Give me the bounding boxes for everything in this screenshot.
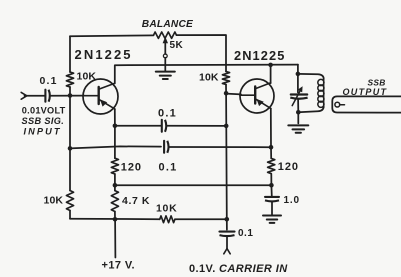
label 10K (upper left resistor) (77, 71, 97, 83)
svg-text:0.1: 0.1 (159, 161, 178, 173)
capacitor C 0.1 (lower coupling) (164, 141, 168, 153)
capacitor C 0.1 (carrier blocking) (220, 232, 235, 237)
wire blocking cap down to carrier source chevron (226, 236, 228, 249)
label 0.1V. CARRIER IN (189, 263, 288, 275)
svg-text:0.1V.: 0.1V. (189, 263, 216, 275)
resistor 10K (bottom rail series) (160, 216, 175, 223)
node junction: Q1 emitter / upper coupling line (113, 124, 118, 129)
svg-text:0.1: 0.1 (40, 75, 58, 87)
label 120 (right) (278, 161, 299, 173)
wire Q2 collector riser (270, 65, 272, 83)
capacitor C-in 0.1 (input coupling) (45, 90, 49, 102)
svg-text:OUTPUT: OUTPUT (343, 87, 388, 97)
svg-text:10K: 10K (156, 202, 177, 214)
svg-text:0.1: 0.1 (158, 108, 177, 120)
wire top rail left segment (node: top bias rail) (70, 34, 154, 37)
wire 4.7K to bottom rail junction (114, 212, 116, 220)
wire primary coil bottom to tank bottom node (298, 106, 323, 112)
wire 120 to mid junction (114, 174, 116, 185)
resistor 120 (Q2 emitter) (268, 158, 275, 173)
input chevron (SSB signal source terminal) (21, 92, 27, 99)
wire Q1 emitter junction down to 120 resistor (114, 126, 116, 158)
wire right mid junction to bypass cap (270, 185, 272, 196)
svg-text:120: 120 (121, 162, 142, 174)
svg-text:5K: 5K (170, 40, 184, 51)
svg-text:120: 120 (278, 161, 299, 173)
wire lower coupling line to Q2 emitter node (169, 146, 271, 148)
wire variable capacitor to tank bottom node (297, 99, 299, 112)
wire top rail right segment to corner above Q2 bias resistor (177, 35, 227, 72)
wire input to coupling capacitor (25, 95, 46, 97)
label 4.7K (left) (122, 195, 150, 207)
ground (balance wiper) (156, 72, 175, 79)
wire +17V feed drop (114, 219, 116, 257)
label INPUT (input) (24, 127, 62, 137)
wire tank top node down to variable capacitor (297, 74, 299, 93)
wire upper coupling line from Q1 emitter node (115, 125, 161, 127)
wire upper coupling line to carrier vertical (167, 125, 227, 127)
svg-text:BALANCE: BALANCE (142, 19, 194, 30)
label 2N1225 (right transistor) (234, 48, 285, 63)
wire right 120 to right mid junction (270, 174, 272, 186)
label 0.01VOLT (input level) (22, 105, 66, 115)
inductor L primary loops (318, 79, 324, 107)
label 0.1 (input coupling cap) (40, 75, 58, 87)
svg-text:SSB SIG.: SSB SIG. (22, 116, 65, 126)
wire bypass cap to ground (271, 201, 273, 215)
label 0.1 (upper coupling cap) (158, 108, 177, 120)
transistor Q2 2N1225 (right) (240, 79, 274, 113)
svg-text:INPUT: INPUT (24, 127, 62, 137)
resistor 10K (Q2 bias from top rail) (222, 72, 229, 85)
svg-text:SSB: SSB (368, 78, 386, 88)
node junction: right divider mid (269, 183, 274, 188)
node junction: carrier vertical / upper 0.1 line (224, 124, 229, 129)
wire Q2 emitter junction to right 120 (270, 147, 272, 158)
wire mid line from left divider to right divider (115, 184, 272, 186)
carrier input chevron (source terminal) (224, 249, 230, 254)
node junction: Q2 emitter / lower coupling line (269, 145, 274, 150)
node junction: tank bottom (296, 110, 301, 115)
svg-text:CARRIER IN: CARRIER IN (219, 263, 288, 275)
label 10K (Q2 bias resistor) (199, 71, 219, 83)
transistor Q1 2N1225 (left) (83, 79, 118, 114)
wire left vertical: base node down to lower 0.1 line junction (69, 96, 71, 149)
wire Q1 emitter drop to upper coupling junction (114, 109, 116, 125)
ground (output tank) (288, 125, 308, 132)
svg-text:2N1225: 2N1225 (75, 47, 133, 62)
wire bottom rail right segment to carrier node (175, 218, 227, 220)
potentiometer R-BALANCE 5K element (horizontal zigzag) (154, 32, 177, 38)
node junction: Q2 collector on link line (268, 63, 273, 68)
svg-text:10K: 10K (199, 71, 219, 83)
node junction: Q1 base / bias divider (68, 93, 73, 98)
wire Q2 bias resistor to base node (225, 85, 227, 94)
wire left vertical: junction down to lower 10K (69, 148, 71, 190)
wire carrier feed vertical: base node down to bottom rail (225, 93, 228, 219)
label 10K (bottom series resistor) (156, 202, 177, 214)
ground (bypass cap) (263, 216, 281, 223)
svg-text:2N1225: 2N1225 (234, 48, 285, 63)
wire wiper terminal down across link line (164, 58, 166, 71)
resistor 4.7K (Q1 emitter to +17V rail) (111, 191, 118, 212)
label OUTPUT (output) (343, 87, 388, 97)
svg-text:0.01VOLT: 0.01VOLT (22, 105, 66, 115)
label SSB SIG. (input) (22, 116, 65, 126)
label SSB (output) (368, 78, 386, 88)
svg-text:10K: 10K (44, 195, 64, 207)
label 0.1 (lower coupling cap) (159, 161, 178, 173)
node junction: left vertical / lower 0.1 coupling line (68, 146, 73, 151)
variable capacitor arrow (292, 86, 302, 105)
capacitor C 1.0 (emitter bypass) (265, 197, 279, 202)
svg-text:0.1: 0.1 (238, 228, 253, 239)
label 0.1 (carrier blocking cap) (238, 228, 253, 239)
label 1.0 (bypass cap) (284, 195, 300, 206)
wiper terminal circle (163, 54, 167, 58)
wire mid junction to 4.7K (114, 185, 116, 190)
wire bottom rail left segment (70, 218, 160, 220)
label 2N1225 (left transistor) (75, 47, 133, 62)
svg-text:1.0: 1.0 (284, 195, 300, 206)
wire Q1 collector riser and top link line to output corner (115, 65, 298, 84)
wire tank bottom node to ground (297, 112, 299, 123)
inductor L primary (output transformer primary) coil line (323, 78, 325, 108)
variable capacitor C-tune plates (290, 95, 307, 99)
node junction: Q1 emitter divider mid (113, 183, 118, 188)
node junction: carrier injection node (225, 217, 230, 222)
wire left vertical bottom corner to rail (69, 211, 71, 219)
wire Q2 emitter drop to lower coupling junction (270, 109, 272, 147)
wire input capacitor to Q1 base (50, 95, 84, 97)
potentiometer wiper arrow (BALANCE) (163, 37, 168, 54)
resistor 10K (lower left, to bottom rail) (66, 191, 73, 211)
wire carrier node down to blocking cap (226, 219, 228, 229)
label 5K (balance pot) (170, 40, 184, 51)
label +17V. (102, 259, 136, 271)
node junction: bottom rail / +17V feed (113, 217, 118, 222)
svg-text:4.7 K: 4.7 K (122, 195, 150, 207)
node junction: Q2 base / carrier feed line (224, 91, 229, 96)
wire tank top node to primary coil top (298, 74, 324, 79)
wire left vertical: top rail corner down to upper 10K (69, 36, 71, 72)
label BALANCE (142, 19, 194, 30)
label 10K (lower left resistor) (44, 195, 64, 207)
wire Q2 base node to Q2 base (226, 93, 241, 96)
resistor 10K (upper left, Q1 bias from rail) (66, 72, 73, 87)
wire left vertical: upper 10K to base node junction (69, 87, 71, 96)
transformer secondary small loop (335, 102, 345, 107)
label 120 (left) (121, 162, 142, 174)
node junction: tank top (296, 72, 301, 77)
wire link line corner down to tank top node (297, 65, 299, 74)
capacitor C 0.1 (upper coupling) (162, 120, 166, 132)
svg-text:+17 V.: +17 V. (102, 259, 136, 271)
wire lower coupling line from left vertical junction (70, 146, 161, 148)
transformer secondary winding (bracket) (332, 96, 401, 112)
resistor 120 (Q1 emitter) (111, 158, 118, 174)
